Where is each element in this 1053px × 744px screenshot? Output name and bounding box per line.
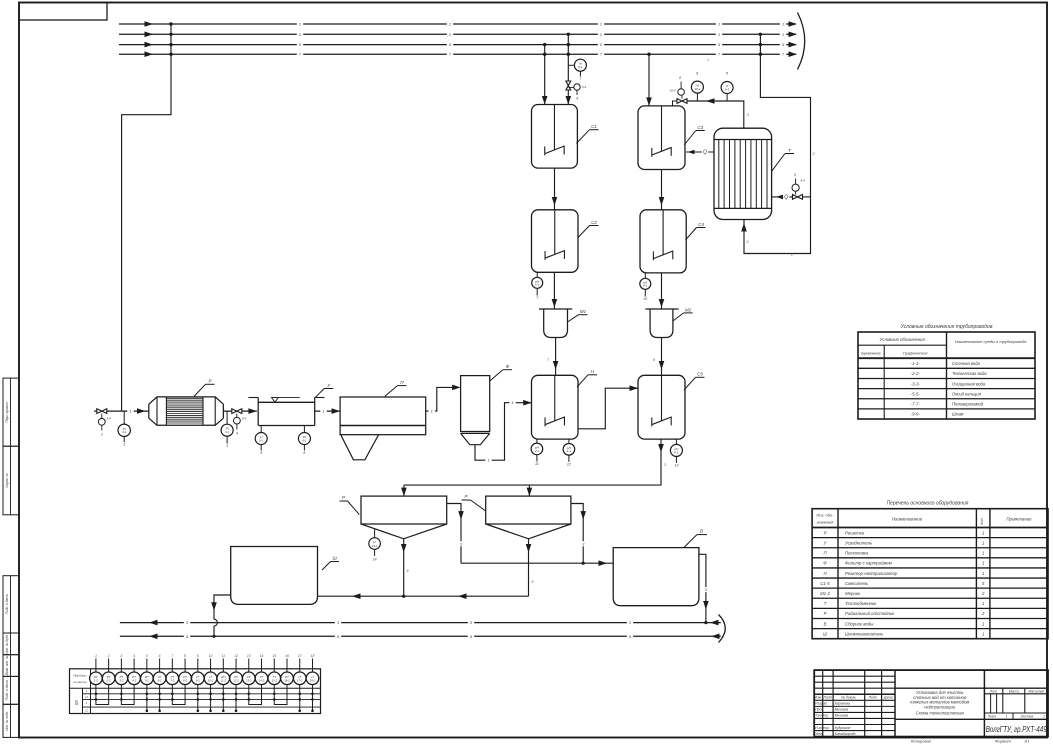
- svg-text:2: 2: [981, 591, 985, 596]
- svg-text:Кудряшов: Кудряшов: [835, 726, 851, 730]
- svg-text:Схема технологическая: Схема технологическая: [916, 710, 965, 715]
- svg-text:Копировал: Копировал: [911, 739, 932, 744]
- tank Sh outlet to sludge pipe: [214, 595, 231, 619]
- svg-text:Усреднитель: Усреднитель: [845, 540, 873, 545]
- svg-text:Взам. инв. №: Взам. инв. №: [5, 655, 9, 675]
- svg-text:Ф: Ф: [506, 364, 510, 369]
- svg-text:Дата: Дата: [883, 696, 893, 700]
- mixer tank C3: [638, 106, 685, 170]
- radial clarifier R1: [361, 496, 447, 524]
- svg-text:Наименование: Наименование: [892, 517, 923, 522]
- wire polyacrylamide feed to C3: [648, 54, 650, 106]
- inlet arrow pipe 7: [145, 51, 154, 57]
- title block: [814, 670, 1048, 737]
- label C3 with leader: [684, 131, 696, 146]
- line C1 to C2: [554, 168, 556, 210]
- svg-text:13-2: 13-2: [246, 679, 252, 683]
- label P with leader: [194, 384, 206, 396]
- line averager to sand trap: [315, 410, 340, 412]
- svg-text:8-1: 8-1: [643, 284, 648, 288]
- svg-text:9: 9: [197, 654, 199, 658]
- svg-text:5: 5: [146, 654, 148, 658]
- sludge storage tank Sh: [231, 547, 318, 605]
- svg-text:3: 3: [123, 443, 125, 447]
- water level mark: [272, 398, 279, 402]
- svg-text:6: 6: [303, 451, 305, 455]
- mixer tank C2: [532, 210, 579, 272]
- svg-text:С5: С5: [697, 372, 703, 377]
- svg-text:Мерник: Мерник: [845, 591, 861, 596]
- svg-text:1: 1: [95, 654, 97, 658]
- svg-text:Пров.: Пров.: [815, 708, 824, 712]
- instrument bubble under C4: [644, 273, 646, 278]
- svg-text:Условные обозначения трубопров: Условные обозначения трубопроводов: [901, 324, 993, 330]
- clear water offtake R1: [447, 504, 461, 564]
- svg-text:3-4: 3-4: [242, 416, 247, 420]
- svg-text:1-2: 1-2: [94, 679, 98, 683]
- small instrument bubble above valve: [678, 89, 685, 96]
- svg-text:8: 8: [184, 654, 186, 658]
- svg-text:5: 5: [260, 451, 262, 455]
- svg-text:12: 12: [567, 463, 571, 467]
- svg-text:Шламонакопитель: Шламонакопитель: [845, 631, 884, 636]
- svg-text:нейтрализации: нейтрализации: [924, 704, 956, 709]
- svg-text:Китайгородс.: Китайгородс.: [835, 732, 857, 736]
- svg-text:6: 6: [794, 173, 796, 177]
- instrument bubble under C5: [675, 439, 677, 444]
- svg-text:12: 12: [234, 654, 238, 658]
- svg-text:Графическое: Графическое: [903, 350, 928, 355]
- svg-text:Очищенная вода: Очищенная вода: [952, 381, 986, 386]
- svg-text:6-2: 6-2: [158, 679, 162, 683]
- valve on C1 water feed: [566, 81, 571, 90]
- line C4 to dosing vessel M2: [661, 273, 663, 309]
- flow arrow into averager: [248, 408, 257, 414]
- valve V1 on main feed: [97, 409, 107, 414]
- svg-text:Шлам: Шлам: [952, 412, 964, 417]
- svg-text:10-1: 10-1: [694, 87, 700, 91]
- svg-text:6-1: 6-1: [535, 283, 540, 287]
- sludge drop from R1: [403, 539, 405, 596]
- instrument bubble 5-4: [568, 86, 573, 88]
- svg-text:1: 1: [322, 409, 324, 414]
- svg-text:Инв. № дубл.: Инв. № дубл.: [5, 634, 9, 654]
- svg-text:15: 15: [272, 654, 276, 658]
- bottom pipe 3 (clean water out): [120, 622, 721, 624]
- inlet arrow pipe 2: [145, 32, 154, 38]
- svg-text:13: 13: [247, 654, 251, 658]
- svg-text:Инв. № подл.: Инв. № подл.: [5, 711, 9, 731]
- svg-text:7: 7: [171, 654, 173, 658]
- svg-text:Условные обозначения: Условные обозначения: [880, 337, 926, 342]
- local instruments panel: [70, 669, 321, 714]
- svg-text:Приборы: Приборы: [73, 673, 87, 677]
- line M2 to mixer C5: [661, 338, 663, 376]
- wire lime feed to C1: [544, 45, 546, 105]
- line C5 to clarifier header: [404, 439, 661, 485]
- svg-text:1: 1: [431, 409, 433, 414]
- svg-text:Подп.: Подп.: [869, 696, 878, 700]
- svg-text:10: 10: [643, 297, 647, 301]
- svg-text:Масса: Масса: [1009, 689, 1019, 693]
- mixer tank C5: [638, 375, 685, 439]
- svg-text:-5-5-: -5-5-: [911, 391, 921, 396]
- svg-text:Перечень основного оборудовани: Перечень основного оборудования: [887, 501, 969, 507]
- panel wiring: [96, 685, 109, 705]
- valve on Q supply: [793, 195, 803, 200]
- bottom pipe 9 (sludge out): [120, 635, 721, 637]
- flow arrow into screens: [137, 408, 146, 414]
- svg-text:Поз. обо-: Поз. обо-: [816, 513, 834, 518]
- svg-text:Т: Т: [824, 601, 827, 606]
- drum screen unit P (Reshetki): [148, 404, 150, 418]
- svg-text:11-2: 11-2: [221, 679, 227, 683]
- svg-text:С1: С1: [591, 124, 597, 129]
- svg-text:-3-3-: -3-3-: [911, 381, 921, 386]
- label Sh with leader: [322, 562, 331, 571]
- svg-text:4-2: 4-2: [132, 679, 136, 683]
- svg-text:4-1: 4-1: [567, 449, 572, 453]
- svg-text:9: 9: [407, 569, 409, 573]
- svg-text:Реактор-нейтрализатор: Реактор-нейтрализатор: [845, 571, 898, 576]
- svg-text:1: 1: [511, 400, 513, 405]
- svg-text:1: 1: [487, 458, 489, 463]
- inlet arrow pipe 1: [145, 21, 154, 27]
- svg-text:2-2: 2-2: [106, 679, 111, 683]
- sludge line to sludge storage Sh: [318, 595, 529, 597]
- svg-text:3: 3: [120, 654, 122, 658]
- svg-text:Оксид кальция: Оксид кальция: [952, 391, 982, 396]
- reactor-neutralizer N: [532, 375, 579, 439]
- svg-text:9: 9: [653, 358, 655, 362]
- svg-text:Q: Q: [784, 194, 788, 200]
- svg-text:Наименование среды в трубопров: Наименование среды в трубопроводе: [955, 339, 1028, 344]
- instrument bubbles under averager: [260, 426, 262, 433]
- svg-text:-2-2-: -2-2-: [911, 371, 921, 376]
- svg-text:С1-5: С1-5: [820, 581, 830, 586]
- svg-text:2-1: 2-1: [534, 449, 540, 453]
- svg-text:-7-7-: -7-7-: [911, 402, 921, 407]
- svg-text:11: 11: [222, 654, 226, 658]
- svg-text:Техническая вода: Техническая вода: [952, 371, 987, 376]
- svg-text:Фильтр с картриджем: Фильтр с картриджем: [845, 561, 892, 566]
- mixer tank C4: [640, 210, 686, 273]
- svg-text:1: 1: [129, 409, 131, 414]
- svg-text:Р: Р: [824, 611, 827, 616]
- svg-text:7-2: 7-2: [170, 679, 174, 683]
- svg-text:№ докум.: № докум.: [841, 696, 856, 700]
- instrument bubble 3-1: [123, 411, 125, 424]
- sand trap hopper: [341, 435, 379, 460]
- svg-text:8: 8: [679, 76, 681, 80]
- svg-text:3-1: 3-1: [225, 430, 230, 434]
- label M1 with leader: [568, 315, 579, 322]
- svg-text:13: 13: [674, 464, 678, 468]
- svg-text:Полиакриламид: Полиакриламид: [952, 402, 984, 407]
- svg-text:Формат: Формат: [995, 739, 1012, 744]
- svg-text:В: В: [700, 528, 703, 533]
- svg-text:Утв.: Утв.: [815, 732, 823, 736]
- wire heating water to heat exchanger T: [744, 34, 811, 253]
- svg-text:Мышева: Мышева: [835, 714, 849, 718]
- svg-text:13-1: 13-1: [372, 544, 378, 548]
- bottom pipes break hook: [719, 615, 726, 643]
- svg-text:1: 1: [782, 22, 784, 27]
- svg-text:6: 6: [159, 654, 161, 658]
- svg-text:Лист: Лист: [823, 696, 833, 700]
- label N with leader: [577, 375, 588, 387]
- clarifier feed drops: [403, 485, 405, 496]
- instrument bubble 5-1: [568, 64, 574, 66]
- svg-text:С3: С3: [697, 125, 703, 130]
- label C1 with leader: [576, 130, 589, 144]
- svg-text:3: 3: [664, 463, 666, 467]
- instrument bubble 10-1: [691, 81, 703, 93]
- svg-text:2: 2: [981, 611, 985, 616]
- top-left corner stamp: [19, 3, 107, 21]
- svg-text:Изм.: Изм.: [815, 696, 822, 700]
- heat exchanger T: [714, 128, 772, 219]
- svg-text:Смеситель: Смеситель: [845, 581, 869, 586]
- svg-text:4: 4: [133, 654, 135, 658]
- svg-text:М1: М1: [580, 309, 587, 314]
- svg-text:Сточная вода: Сточная вода: [952, 361, 981, 366]
- svg-text:Справ. №: Справ. №: [5, 473, 9, 488]
- svg-text:18-2: 18-2: [310, 679, 316, 683]
- clean water line to collector B: [461, 562, 613, 564]
- svg-text:5-2: 5-2: [145, 679, 149, 683]
- svg-text:по месту: по месту: [73, 680, 87, 684]
- svg-text:9-4: 9-4: [800, 179, 805, 183]
- line sand trap to filter: [426, 387, 452, 411]
- svg-text:14: 14: [373, 558, 377, 562]
- main feed line: [94, 410, 149, 412]
- instrument bubbles under reactor N: [536, 439, 538, 443]
- svg-text:Р: Р: [824, 530, 827, 535]
- valve on C3 top line: [673, 101, 678, 106]
- svg-text:2: 2: [107, 654, 110, 658]
- svg-text:1: 1: [299, 22, 301, 27]
- outlet arrow pipe 1: [789, 21, 798, 27]
- svg-text:10-4: 10-4: [669, 89, 675, 93]
- svg-text:Кол.: Кол.: [980, 517, 984, 524]
- svg-text:В: В: [824, 621, 827, 626]
- svg-text:-1-1-: -1-1-: [911, 361, 921, 366]
- svg-text:9-2: 9-2: [196, 679, 200, 683]
- mixer tank C1: [532, 105, 578, 169]
- label C5 with leader: [684, 377, 696, 390]
- svg-text:1: 1: [718, 22, 720, 27]
- svg-text:10-2: 10-2: [208, 679, 214, 683]
- water collector tank B: [613, 548, 699, 606]
- svg-text:С2: С2: [591, 220, 597, 225]
- instrument bubble after screens: [226, 411, 228, 424]
- svg-text:ВолгГТУ, гр.РХТ-449: ВолгГТУ, гр.РХТ-449: [986, 724, 1047, 734]
- svg-text:10: 10: [209, 654, 213, 658]
- tank B outlet to clean pipe: [699, 554, 706, 622]
- heat flow Q into mixer C3: [686, 151, 714, 153]
- svg-text:Перв. примен.: Перв. примен.: [5, 401, 9, 422]
- label Pk with leader: [385, 386, 398, 397]
- svg-text:6-1: 6-1: [302, 438, 307, 442]
- instrument bubble 3-4: [101, 414, 103, 419]
- svg-text:-9-9-: -9-9-: [911, 412, 921, 417]
- svg-text:Q: Q: [703, 150, 707, 156]
- left margin attribute boxes: [3, 378, 19, 446]
- label B with leader: [684, 535, 697, 548]
- svg-text:Радиальный отстойник: Радиальный отстойник: [845, 611, 895, 616]
- svg-text:8: 8: [576, 96, 578, 100]
- svg-text:1: 1: [1043, 715, 1045, 719]
- line N to C5: [578, 388, 638, 429]
- svg-text:1: 1: [1006, 715, 1008, 719]
- svg-text:М1-2: М1-2: [820, 591, 830, 596]
- svg-text:Листов: Листов: [1020, 715, 1034, 719]
- label C2 with leader: [578, 226, 590, 239]
- line M1 to reactor N: [555, 338, 557, 376]
- svg-text:5-1: 5-1: [578, 65, 583, 69]
- header end break arc: [798, 13, 805, 70]
- svg-text:12-2: 12-2: [233, 679, 239, 683]
- line C2 to dosing vessel M1: [553, 272, 555, 309]
- dosing vessel M1 (Mernik): [539, 308, 572, 310]
- svg-text:17-2: 17-2: [297, 679, 303, 683]
- svg-text:М2: М2: [685, 307, 692, 312]
- label M2 with leader: [673, 313, 684, 321]
- svg-text:Разраб.: Разраб.: [815, 702, 827, 706]
- svg-text:Н.контр.: Н.контр.: [815, 726, 829, 730]
- svg-text:Примечание: Примечание: [1006, 517, 1032, 522]
- top pipe header lines 1,2,5,7: [119, 23, 796, 25]
- svg-text:5-4: 5-4: [582, 85, 587, 89]
- svg-text:3: 3: [226, 444, 228, 448]
- svg-text:Ф: Ф: [823, 561, 827, 566]
- svg-text:16-2: 16-2: [284, 679, 290, 683]
- reagent line from heat exchanger to C3: [687, 101, 744, 128]
- svg-text:9: 9: [532, 580, 534, 584]
- svg-text:значения: значения: [816, 520, 835, 525]
- svg-text:Лит.: Лит.: [989, 689, 998, 693]
- svg-text:С4: С4: [698, 222, 704, 227]
- svg-text:Лист: Лист: [987, 715, 997, 719]
- instrument bubble under C2: [536, 272, 538, 277]
- svg-text:1: 1: [600, 22, 602, 27]
- svg-text:1: 1: [449, 22, 451, 27]
- outlet arrow pipe 7: [789, 51, 798, 57]
- svg-text:3-1: 3-1: [122, 430, 127, 434]
- svg-text:Баранова: Баранова: [835, 702, 850, 706]
- svg-text:16: 16: [285, 654, 289, 658]
- inlet arrow pipe 5: [145, 42, 154, 48]
- sand trap unit (Peskolovka): [340, 397, 426, 435]
- svg-text:Сборник воды: Сборник воды: [845, 621, 874, 626]
- clear water offtake R2: [571, 504, 583, 564]
- svg-text:8-1: 8-1: [674, 450, 679, 454]
- svg-text:18: 18: [311, 654, 315, 658]
- outlet arrow pipe 2: [789, 32, 798, 38]
- svg-text:4: 4: [236, 432, 238, 436]
- svg-text:2: 2: [100, 433, 103, 437]
- instrument bubble under clarifier R1: [374, 529, 376, 538]
- cartridge filter F: [461, 376, 490, 432]
- averaging tank U (Usrednitel): [257, 398, 259, 426]
- radial clarifier R2: [486, 496, 571, 524]
- line screens to averager: [223, 410, 257, 412]
- label F with leader: [490, 370, 503, 381]
- svg-text:Решетки: Решетки: [845, 530, 865, 535]
- svg-text:Теплообменник: Теплообменник: [845, 601, 877, 606]
- instrument bubble 9-1: [721, 82, 733, 94]
- svg-text:3-4: 3-4: [106, 417, 111, 421]
- svg-text:Масштаб: Масштаб: [1028, 689, 1044, 693]
- svg-text:Мышева: Мышева: [835, 708, 849, 712]
- wire water feed to C1 with valve: [567, 34, 569, 104]
- svg-text:Подп. и дата: Подп. и дата: [5, 680, 9, 700]
- svg-text:11: 11: [535, 462, 539, 466]
- svg-text:5-1: 5-1: [259, 438, 264, 442]
- svg-text:Песколовка: Песколовка: [845, 551, 869, 556]
- svg-text:14: 14: [260, 654, 264, 658]
- sludge drop from R2: [528, 539, 530, 596]
- outlet arrow pipe 5: [789, 42, 798, 48]
- svg-text:8-2: 8-2: [183, 679, 187, 683]
- svg-text:15-2: 15-2: [271, 679, 277, 683]
- svg-text:Ш: Ш: [823, 631, 827, 636]
- svg-text:3-2: 3-2: [119, 679, 123, 683]
- line filter to reactor N: [475, 403, 532, 461]
- svg-text:Т.контр.: Т.контр.: [815, 714, 829, 718]
- label U with leader: [316, 389, 325, 398]
- label T with leader: [772, 154, 785, 172]
- svg-text:А1: А1: [1024, 739, 1030, 744]
- wire raw water drop from pipe 1: [122, 24, 171, 411]
- valve V2: [232, 409, 242, 414]
- svg-text:17: 17: [298, 654, 302, 658]
- line C3 to C4: [661, 170, 663, 210]
- heat supply Q line with valve: [772, 196, 811, 198]
- svg-text:14-2: 14-2: [259, 679, 265, 683]
- label C4 with leader: [686, 228, 697, 241]
- svg-text:Буквенное: Буквенное: [861, 350, 881, 355]
- svg-text:9-1: 9-1: [725, 87, 730, 91]
- dosing vessel M2 (Mernik): [645, 308, 678, 310]
- svg-text:Подп. и дата: Подп. и дата: [5, 594, 9, 614]
